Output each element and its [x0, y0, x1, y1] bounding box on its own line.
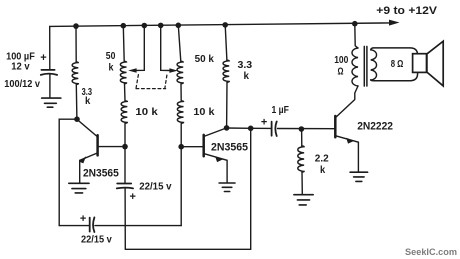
svg-text:2N3565: 2N3565	[83, 167, 119, 179]
ground under Q2	[219, 183, 235, 192]
svg-text:8 Ω: 8 Ω	[391, 58, 404, 70]
capacitor C3 22/15v plates	[90, 217, 95, 232]
svg-text:+9 to +12V: +9 to +12V	[376, 5, 437, 17]
wire R7 to ground	[301, 172, 303, 194]
svg-text:k: k	[320, 164, 325, 176]
junction dot rail/R1	[73, 23, 79, 29]
svg-text:2N2222: 2N2222	[357, 121, 393, 133]
wire primary to Q3 collector	[355, 86, 358, 99]
svg-text:22/15 v: 22/15 v	[81, 233, 112, 245]
resistor R5 10k	[177, 101, 183, 124]
junction dot rail/R6	[222, 22, 228, 28]
resistor R1 3.3k	[72, 62, 78, 85]
wire rail to transformer primary	[355, 24, 358, 48]
junction dot rail/R2	[121, 23, 127, 29]
svg-text:1 µF: 1 µF	[272, 104, 290, 116]
wire R5 to node C	[180, 123, 182, 146]
wire rail to R1	[75, 26, 77, 62]
svg-text:k: k	[244, 70, 250, 82]
node B dot (Q1 base)	[122, 144, 128, 150]
capacitor C4 1uF	[272, 122, 277, 137]
dashed gang link between wipers	[136, 75, 167, 89]
node E dot	[248, 126, 254, 132]
speaker LS1 cone	[427, 41, 443, 86]
transformer T1 core	[364, 46, 367, 86]
transformer T1 secondary	[371, 50, 377, 80]
wire C2 down to wire2	[124, 188, 126, 249]
svg-text:2N3565: 2N3565	[211, 141, 248, 153]
junction dot rail/wiper W2	[158, 23, 164, 29]
wire secondary loop to speaker	[371, 48, 418, 81]
ground under Q3	[350, 172, 368, 181]
node C dot (Q2 base)	[178, 144, 184, 150]
node F dot (2.2k tap)	[299, 126, 305, 132]
transformer T1 primary 100 ohm	[352, 48, 358, 86]
wire R6 to node D	[226, 82, 228, 127]
wire C3 to Q2 base column	[95, 225, 181, 227]
svg-text:+: +	[80, 213, 86, 225]
potentiometer R2 50k body	[120, 61, 126, 84]
speaker LS1 driver box	[413, 54, 427, 73]
node D dot (Q2 collector)	[224, 125, 230, 131]
wire rail to R3 pot	[178, 25, 181, 61]
transistor Q1 2N3565	[77, 119, 125, 182]
svg-text:10 k: 10 k	[193, 106, 214, 118]
wire1 cross-coupling (Q1 collector to Q2 base)	[59, 225, 89, 227]
capacitor C2 22/15v vertical: wire from node B	[124, 147, 126, 184]
svg-text:100/12 v: 100/12 v	[4, 78, 40, 90]
wire node E to C4	[251, 127, 271, 129]
svg-text:12 v: 12 v	[11, 61, 29, 73]
svg-text:50 k: 50 k	[195, 53, 214, 65]
resistor R6 3.3k	[223, 60, 229, 82]
supply rail arrowhead	[389, 20, 400, 26]
wiper of R3	[161, 25, 178, 73]
wire rail to R2 pot	[122, 26, 125, 62]
ground under R7	[294, 195, 313, 205]
wire2 feedback (Q2 collector to C2)	[125, 128, 250, 249]
svg-text:SeekIC.com: SeekIC.com	[405, 247, 457, 258]
wire C4 to Q3 base	[278, 128, 336, 130]
ground under C1	[42, 98, 61, 107]
node G dot (rail to transformer)	[352, 21, 358, 27]
wire node C down to wire1	[180, 147, 182, 226]
wire R3 to R5	[180, 84, 182, 101]
svg-text:22/15 v: 22/15 v	[139, 181, 172, 193]
svg-text:Ω: Ω	[338, 65, 344, 77]
svg-text:10 k: 10 k	[135, 106, 157, 118]
wire R1 to node A	[75, 85, 78, 120]
wire left drop to C1	[49, 26, 51, 69]
svg-text:+: +	[261, 117, 267, 129]
node A dot (Q1 collector)	[74, 116, 80, 122]
svg-text:k: k	[85, 95, 90, 107]
capacitor C1 100uF	[41, 70, 57, 75]
resistor R4 10k	[121, 101, 127, 124]
wire rail to R6	[225, 25, 227, 60]
potentiometer R3 50k body	[177, 61, 183, 84]
resistor R7 2.2k	[298, 146, 304, 172]
ground under Q1	[69, 183, 89, 193]
wire supply rail	[50, 23, 391, 27]
junction dot rail/R3	[176, 23, 182, 29]
wire R4 to node B	[124, 123, 126, 146]
svg-text:k: k	[109, 62, 114, 74]
wire node A left and down	[59, 119, 77, 225]
svg-text:+: +	[40, 52, 46, 64]
svg-text:2.2: 2.2	[315, 153, 329, 165]
wire R2 to R4	[124, 84, 127, 101]
capacitor C2 plates	[117, 184, 133, 189]
wire node F to R7	[301, 129, 303, 146]
svg-text:50: 50	[106, 50, 116, 62]
junction dot rail/wiper W1	[142, 23, 148, 29]
wire C1 to ground	[49, 75, 51, 98]
transistor Q2 2N3565	[181, 128, 227, 183]
transistor Q3 2N2222	[335, 100, 358, 172]
wiper of R2	[128, 26, 144, 73]
wire node D to node E	[227, 127, 251, 129]
svg-text:+: +	[130, 191, 136, 203]
